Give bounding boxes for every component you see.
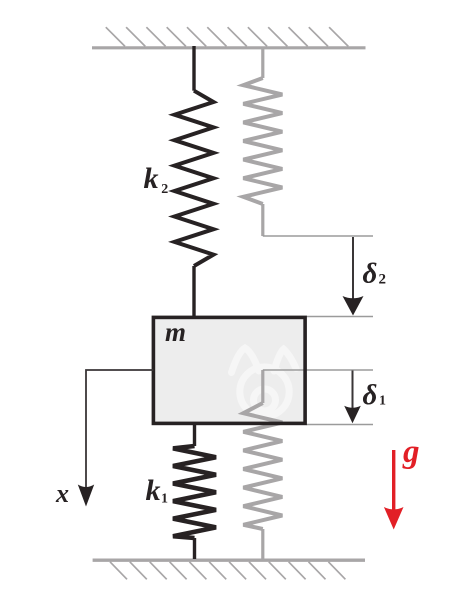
spring k2 (black): coil xyxy=(175,91,214,266)
svg-text:δ: δ xyxy=(363,258,378,290)
watermark (faint cat face on mass) xyxy=(232,348,297,416)
svg-text:1: 1 xyxy=(161,492,168,507)
dimension line delta2 bottom / mass top (gray) xyxy=(307,316,374,318)
floor xyxy=(93,560,365,579)
spring (unstretched, gray) lower: wire xyxy=(261,370,264,403)
spring k1 (black): top wire xyxy=(193,424,196,446)
dimension line delta1 bottom / mass bottom (gray) xyxy=(307,424,374,426)
svg-text:2: 2 xyxy=(379,272,387,288)
gravity arrow g (red) xyxy=(392,450,395,512)
spring (unstretched, gray) upper: wire xyxy=(261,47,264,78)
arrowhead x xyxy=(78,485,94,507)
svg-text:k: k xyxy=(144,162,159,195)
svg-text:1: 1 xyxy=(379,394,386,409)
spring k2 (black): bottom wire xyxy=(192,266,195,318)
svg-text:m: m xyxy=(165,317,186,347)
spring k1 (black): coil xyxy=(173,446,216,538)
svg-text:δ: δ xyxy=(363,379,378,411)
svg-text:k: k xyxy=(146,474,161,507)
mass m (fill) xyxy=(153,317,305,423)
spring k2 (black): top wire xyxy=(192,46,195,91)
wire mass to x-axis xyxy=(86,370,153,487)
svg-text:g: g xyxy=(402,434,420,470)
spring (unstretched, gray) lower: coil xyxy=(243,403,282,529)
spring (unstretched, gray) lower: bottom wire xyxy=(261,529,264,559)
svg-text:x: x xyxy=(55,479,69,508)
mass m (border) xyxy=(153,317,305,423)
ceiling xyxy=(92,27,366,48)
dimension arrow delta1 xyxy=(352,371,354,410)
spring (unstretched, gray) upper: lower wire xyxy=(261,204,264,236)
dimension line delta2 top (gray) xyxy=(263,235,373,237)
svg-text:2: 2 xyxy=(161,182,168,197)
dimension line delta1 top (gray) xyxy=(263,369,373,371)
spring (unstretched, gray) upper: coil xyxy=(243,78,282,204)
dimension arrow delta2 xyxy=(352,237,354,300)
spring k1 (black): bottom wire xyxy=(193,538,196,559)
